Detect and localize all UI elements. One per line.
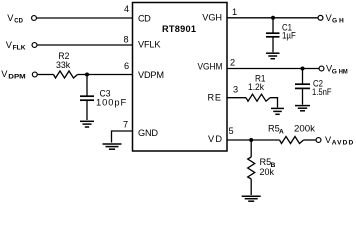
svg-text:20k: 20k [260, 167, 275, 177]
node VDPM terminal label [1, 69, 26, 81]
resistor R2 [54, 71, 78, 78]
node VCD terminal label [7, 13, 23, 25]
ground for C1 [266, 53, 280, 59]
wire R5B to ground [250, 179, 252, 195]
svg-text:VGHM: VGHM [198, 62, 223, 72]
IC U1 RT8901 body [133, 3, 228, 152]
ground for pin 7 [103, 144, 122, 149]
svg-text:8: 8 [124, 34, 129, 44]
svg-text:RT8901: RT8901 [162, 24, 196, 34]
svg-text:VD: VD [208, 134, 222, 144]
wire R1 to ground [270, 98, 278, 108]
node VFLK terminal label [6, 40, 26, 52]
svg-text:5: 5 [229, 126, 234, 136]
node VGHM terminal circle [319, 66, 324, 71]
resistor R5A [280, 137, 304, 144]
svg-text:VFLK: VFLK [138, 40, 161, 50]
wire junction to R5B [250, 140, 252, 157]
label R5A [268, 124, 284, 136]
svg-text:DPM: DPM [8, 73, 26, 80]
svg-text:AVDD: AVDD [332, 140, 354, 147]
svg-text:G: G [332, 68, 337, 75]
svg-text:GND: GND [138, 128, 158, 138]
wire R5A to terminal [304, 139, 317, 141]
resistor R1 [246, 94, 270, 101]
ground for C3 [80, 121, 94, 127]
resistor R5B [248, 157, 255, 179]
svg-text:CD: CD [138, 14, 151, 24]
svg-text:G: G [332, 18, 337, 25]
svg-text:1µF: 1µF [282, 31, 296, 41]
wire pin 2 VGHM to terminal [227, 68, 319, 70]
svg-text:VDPM: VDPM [138, 70, 164, 80]
wire VCD to pin 4 [37, 17, 133, 19]
svg-text:1.2k: 1.2k [248, 82, 264, 92]
node VGH terminal label [326, 13, 345, 25]
wire R2 to pin 6 [78, 74, 133, 76]
svg-text:FLK: FLK [13, 44, 26, 51]
svg-text:A: A [279, 129, 284, 136]
svg-text:RE: RE [208, 93, 222, 103]
junction node at R5A/R5B [249, 138, 253, 142]
svg-text:7: 7 [123, 120, 128, 130]
node VDPM terminal circle [32, 72, 37, 77]
svg-text:VGH: VGH [202, 13, 222, 23]
node VFLK terminal circle [32, 43, 37, 48]
wire pin 1 VGH to terminal [227, 17, 318, 19]
svg-text:HM: HM [339, 68, 348, 75]
wire pin 5 VD to R5A [227, 139, 280, 141]
wire pin 7 GND [112, 131, 133, 143]
svg-text:R5: R5 [260, 157, 272, 167]
wire pin 3 RE to R1 [227, 97, 246, 99]
capacitor C3 [80, 75, 94, 121]
ground for R1 [271, 108, 284, 114]
ground for C2 [295, 106, 310, 111]
node VGHM terminal label [326, 64, 348, 76]
svg-text:1: 1 [232, 7, 237, 17]
svg-text:3: 3 [233, 85, 238, 95]
wire VDPM to R2 [38, 74, 54, 76]
node VAVDD terminal circle [316, 138, 321, 143]
node VAVDD terminal label [325, 135, 354, 147]
svg-text:2: 2 [230, 58, 235, 68]
wire VFLK to pin 8 [37, 44, 132, 46]
node VCD terminal circle [32, 16, 37, 21]
node VGH terminal circle [318, 15, 323, 20]
svg-text:V: V [7, 13, 14, 23]
svg-text:V: V [1, 69, 8, 79]
svg-text:H: H [339, 18, 344, 25]
svg-text:1.5nF: 1.5nF [312, 87, 332, 97]
junction node at R2/C3 [85, 73, 89, 77]
capacitor C2 [295, 69, 310, 105]
ground for R5B [242, 196, 261, 201]
label R5B [260, 157, 276, 169]
svg-text:CD: CD [14, 17, 23, 24]
svg-text:6: 6 [124, 61, 129, 71]
svg-text:R5: R5 [268, 124, 280, 134]
junction node at C1 [271, 16, 275, 20]
junction node at C2 [301, 67, 305, 71]
svg-text:4: 4 [124, 4, 129, 14]
svg-text:200k: 200k [294, 124, 315, 134]
capacitor C1 [266, 18, 280, 53]
svg-text:33k: 33k [56, 60, 71, 70]
svg-text:100pF: 100pF [96, 97, 127, 107]
